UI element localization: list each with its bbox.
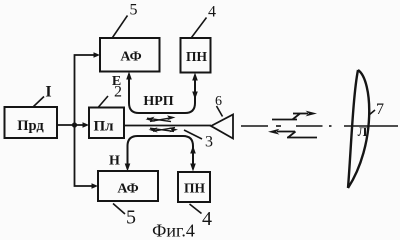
svg-text:4: 4 <box>202 208 212 230</box>
svg-text:Н: Н <box>109 154 120 169</box>
svg-text:Е: Е <box>112 74 121 89</box>
leader line I <box>34 97 45 107</box>
wire Пл to horn (main waveguide) <box>124 125 211 127</box>
wire junction up to АФ top <box>75 55 96 125</box>
svg-text:НРП: НРП <box>143 94 173 109</box>
box Пл (polarizer) <box>89 108 124 139</box>
svg-text:I: I <box>45 84 51 101</box>
leader line 7 <box>369 110 375 115</box>
box ПН top <box>181 38 211 73</box>
wire U-loop bottom (АФ bottom / ПН bottom coupler) <box>128 136 194 169</box>
svg-text:ПН: ПН <box>186 49 208 64</box>
coupler crossed arrows bottom (Н loop to waveguide) <box>149 127 179 132</box>
horn antenna (triangle) <box>211 115 233 139</box>
leader line 5 top <box>113 16 128 38</box>
arrowhead down into АФ bottom top edge, label Н branch <box>125 164 131 172</box>
svg-text:АФ: АФ <box>120 50 141 65</box>
arrowhead up into ПН top bottom edge <box>192 73 198 81</box>
svg-text:3: 3 <box>205 134 213 151</box>
EM wave zigzag arrow left (reflected) <box>277 132 317 138</box>
arrowhead up on ПН bottom branch <box>190 146 196 154</box>
svg-text:4: 4 <box>208 4 216 21</box>
junction node <box>72 122 77 127</box>
box Прд (transmitter) <box>5 107 58 138</box>
arrowhead into АФ bottom <box>92 183 99 189</box>
EM wave zigzag arrow right (outgoing) <box>272 114 308 120</box>
box ПН bottom <box>178 172 210 202</box>
svg-text:5: 5 <box>126 207 136 229</box>
box АФ bottom <box>98 171 158 201</box>
wire U-loop top (АФ top / ПН top coupler) <box>129 74 195 113</box>
arrowhead into Пл <box>83 122 90 128</box>
arrowhead of outgoing wave <box>306 111 318 117</box>
leader line 3 <box>184 130 202 139</box>
wire Прд to Пл <box>57 124 86 126</box>
arrowhead into АФ top <box>94 52 101 58</box>
svg-text:АФ: АФ <box>117 182 138 197</box>
svg-text:ПН: ПН <box>184 181 206 196</box>
wire junction down to АФ bottom <box>75 125 94 186</box>
leader line 4 top <box>192 18 207 38</box>
leader line 6 <box>217 106 223 117</box>
arrowhead down into ПН bottom top edge <box>190 164 196 172</box>
svg-text:Л: Л <box>358 124 368 139</box>
arrowhead up into АФ top bottom edge, label Е branch <box>126 72 132 80</box>
svg-text:Прд: Прд <box>17 118 44 134</box>
box АФ top <box>100 38 160 72</box>
leader line 5 bottom <box>113 204 125 215</box>
lens Л (meniscus) <box>348 70 369 188</box>
leader line 2 <box>99 96 109 107</box>
arrowhead of reflected wave <box>268 129 280 135</box>
optical axis dash-dot line <box>241 125 398 127</box>
arrowhead down on ПН top branch <box>192 92 198 100</box>
svg-text:5: 5 <box>130 2 138 19</box>
leader line 4 bottom <box>190 204 202 214</box>
svg-text:7: 7 <box>376 101 384 118</box>
svg-text:Пл: Пл <box>93 119 114 135</box>
svg-text:Фиг.4: Фиг.4 <box>152 221 195 240</box>
coupler crossed arrows top (НРП loop to waveguide) <box>146 115 176 122</box>
